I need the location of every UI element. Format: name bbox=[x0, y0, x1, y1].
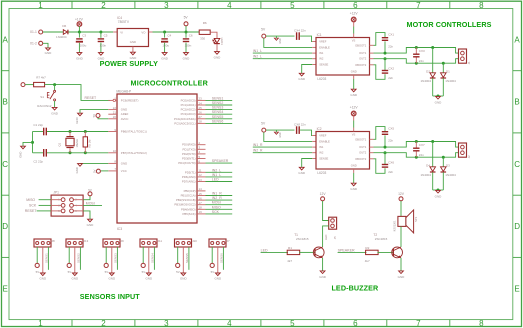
wire S1 to ground bbox=[54, 101, 56, 108]
IC3 pin 18 PB4(MISO) net MISO bbox=[197, 208, 206, 210]
svg-text:IN2: IN2 bbox=[319, 57, 324, 61]
capacitor CX3 22n snubber bbox=[415, 48, 417, 55]
svg-text:SENS5: SENS5 bbox=[185, 253, 189, 263]
svg-text:330: 330 bbox=[200, 36, 205, 40]
svg-text:L6203: L6203 bbox=[317, 171, 326, 175]
svg-text:MISO: MISO bbox=[26, 198, 35, 202]
wire diodes to ground IC1 bbox=[433, 95, 444, 97]
svg-text:PB2(SS/OC1B): PB2(SS/OC1B) bbox=[176, 198, 196, 202]
svg-text:SENS2: SENS2 bbox=[77, 253, 81, 263]
capacitor C1 22p bbox=[43, 128, 44, 136]
wire T1 emitter to ground bbox=[322, 258, 324, 271]
svg-text:GND: GND bbox=[76, 57, 84, 61]
svg-text:8: 8 bbox=[479, 1, 484, 10]
svg-text:OBOOT2: OBOOT2 bbox=[355, 157, 367, 161]
wire J9 pin2 to ground bbox=[111, 247, 113, 273]
svg-text:ENABLE: ENABLE bbox=[319, 45, 330, 49]
svg-text:PD5(T1): PD5(T1) bbox=[185, 170, 196, 174]
svg-text:AREF: AREF bbox=[121, 112, 129, 116]
svg-text:1: 1 bbox=[58, 199, 60, 202]
svg-text:GND: GND bbox=[75, 117, 79, 123]
transistor T1 2SC1815 bbox=[313, 247, 324, 258]
svg-text:5: 5 bbox=[290, 319, 295, 328]
svg-text:3: 3 bbox=[58, 204, 60, 207]
svg-text:IC3: IC3 bbox=[117, 227, 122, 231]
svg-text:PC5(ADC5/SCL): PC5(ADC5/SCL) bbox=[174, 121, 195, 125]
svg-text:SPEAKER: SPEAKER bbox=[338, 248, 355, 252]
wire crystal row XTAL2 bbox=[47, 152, 108, 154]
IC3 pin 2 PD0(RXD) bbox=[197, 144, 206, 146]
wire GND pin 22 bbox=[80, 110, 108, 114]
svg-text:X1-2: X1-2 bbox=[30, 42, 37, 46]
IC3 pin 28 PC5(ADC5/SCL) net SENS6 bbox=[197, 122, 206, 124]
svg-text:22n: 22n bbox=[388, 138, 393, 142]
svg-text:5V: 5V bbox=[176, 270, 180, 274]
svg-text:12: 12 bbox=[199, 173, 203, 177]
diode D1 1N4004 bbox=[442, 63, 444, 73]
svg-text:SCK: SCK bbox=[29, 204, 37, 208]
svg-text:SENS5: SENS5 bbox=[212, 115, 224, 119]
svg-text:PD0(RXD): PD0(RXD) bbox=[182, 143, 195, 147]
svg-text:4: 4 bbox=[227, 1, 232, 10]
svg-text:22: 22 bbox=[113, 106, 117, 110]
wire VCC pin 7 to 5V bbox=[101, 170, 109, 172]
svg-text:4: 4 bbox=[75, 204, 77, 207]
ground below C6 bbox=[184, 53, 189, 56]
speaker SP1 KSS1201 bbox=[398, 216, 406, 226]
svg-text:22n: 22n bbox=[388, 76, 393, 80]
wire SENSE to ground bbox=[312, 158, 316, 160]
node junction at switch S1 bbox=[53, 83, 56, 86]
wire crystal left vertical bbox=[32, 132, 34, 153]
resistor R6 330 bbox=[199, 30, 210, 34]
wire 12V to LED connector bbox=[323, 201, 329, 221]
svg-text:2: 2 bbox=[101, 319, 106, 328]
svg-text:22n: 22n bbox=[419, 59, 424, 63]
node +12V rail junction at C3 bbox=[78, 31, 81, 34]
svg-text:5V: 5V bbox=[211, 270, 215, 274]
svg-text:J8: J8 bbox=[52, 239, 55, 243]
svg-text:26: 26 bbox=[199, 111, 203, 115]
svg-text:SENS6: SENS6 bbox=[212, 119, 224, 123]
wire +12V to VS IC1 bbox=[353, 22, 355, 27]
svg-text:1: 1 bbox=[38, 1, 43, 10]
svg-text:5: 5 bbox=[290, 1, 295, 10]
capacitor CX6 22n bootstrap bbox=[384, 151, 387, 154]
node rail junction at C6 bbox=[185, 31, 188, 34]
wire +12V to VS IC2 bbox=[353, 116, 355, 121]
svg-text:E: E bbox=[3, 284, 8, 293]
svg-text:GND: GND bbox=[435, 100, 443, 104]
svg-text:S1: S1 bbox=[40, 95, 44, 99]
svg-text:J2: J2 bbox=[467, 155, 471, 158]
svg-text:B: B bbox=[3, 98, 8, 107]
svg-text:12V: 12V bbox=[320, 192, 327, 196]
svg-text:J13: J13 bbox=[84, 239, 89, 243]
svg-text:PC2(ADC2): PC2(ADC2) bbox=[181, 108, 196, 112]
svg-text:GND: GND bbox=[39, 277, 47, 281]
wire to crystal ground bbox=[31, 141, 34, 144]
svg-text:R2: R2 bbox=[365, 246, 369, 250]
wire JP1 pin2 to 5V bbox=[83, 196, 90, 200]
wire X1-2 to ground bbox=[43, 43, 48, 48]
supply 5V at JP1 bbox=[88, 192, 92, 196]
ground below T2 bbox=[399, 271, 404, 274]
svg-text:R6: R6 bbox=[203, 21, 207, 25]
IC4 ground pin wire bbox=[132, 47, 134, 53]
svg-text:MISO: MISO bbox=[212, 205, 221, 209]
capacitor C4 100u bbox=[164, 32, 166, 38]
wire main +12V rail bbox=[69, 31, 114, 33]
svg-text:PB4(MISO): PB4(MISO) bbox=[181, 207, 196, 211]
motor driver IC2 L6203 bbox=[316, 132, 370, 170]
wire J11 pin3 net SENS4 bbox=[153, 247, 155, 270]
svg-text:7: 7 bbox=[416, 1, 421, 10]
svg-text:PC6(/RESET): PC6(/RESET) bbox=[121, 98, 139, 102]
svg-text:RACON12: RACON12 bbox=[37, 104, 52, 108]
ground below diodes IC1 bbox=[436, 96, 441, 99]
svg-text:IN2_L: IN2_L bbox=[253, 55, 262, 59]
wire 12V to speaker bbox=[400, 201, 402, 216]
wire MOSI from JP1 bbox=[83, 204, 102, 206]
svg-text:100n: 100n bbox=[100, 44, 107, 48]
svg-text:13: 13 bbox=[199, 178, 203, 182]
svg-text:8: 8 bbox=[479, 319, 484, 328]
svg-text:LED1: LED1 bbox=[220, 38, 224, 46]
crystal Q1 16MHz bbox=[69, 130, 72, 133]
svg-text:PD2(INT0): PD2(INT0) bbox=[182, 152, 196, 156]
svg-text:MOSI: MOSI bbox=[212, 201, 221, 205]
capacitor C6 100n bbox=[185, 32, 187, 38]
svg-text:VREF: VREF bbox=[319, 134, 327, 138]
IC3 pin 3 PD1(TXD) bbox=[197, 148, 206, 150]
frame row ticks right bbox=[513, 70, 522, 72]
svg-text:SP1: SP1 bbox=[414, 216, 418, 222]
frame column ticks top bbox=[71, 1, 73, 8]
svg-text:11: 11 bbox=[199, 169, 202, 173]
svg-text:GND: GND bbox=[298, 77, 306, 81]
svg-text:X1-1: X1-1 bbox=[30, 30, 37, 34]
svg-text:CX6: CX6 bbox=[388, 160, 394, 164]
svg-text:GND: GND bbox=[214, 277, 222, 281]
svg-text:SENSE: SENSE bbox=[319, 157, 328, 161]
wire J7 pin2 to ground bbox=[217, 247, 219, 273]
svg-text:PC3(ADC3): PC3(ADC3) bbox=[181, 112, 196, 116]
wire R1 to T1 base bbox=[299, 251, 315, 253]
resistor R1 4k7 bbox=[287, 250, 300, 254]
node rail junction at C5 bbox=[99, 31, 102, 34]
wire CX4 to VREF bbox=[300, 36, 312, 41]
svg-text:GND: GND bbox=[145, 277, 153, 281]
svg-text:7: 7 bbox=[416, 319, 421, 328]
svg-text:5V: 5V bbox=[105, 270, 109, 274]
svg-text:GND: GND bbox=[398, 275, 406, 279]
svg-text:VCC: VCC bbox=[121, 169, 127, 173]
wire OUT2 rail IC2 bbox=[370, 152, 374, 154]
svg-text:POWER SUPPLY: POWER SUPPLY bbox=[100, 59, 159, 68]
wire J8 pin1 to 5V pad bbox=[36, 247, 38, 263]
svg-text:GND: GND bbox=[161, 57, 169, 61]
capacitor CX2 22n bootstrap bbox=[384, 57, 387, 60]
svg-text:GND: GND bbox=[108, 277, 116, 281]
svg-text:6: 6 bbox=[353, 319, 358, 328]
svg-text:GND: GND bbox=[18, 152, 22, 158]
svg-text:21: 21 bbox=[113, 111, 117, 115]
svg-text:6: 6 bbox=[75, 210, 77, 213]
voltage regulator IC4 7805TV bbox=[117, 29, 148, 47]
wire J7 pin3 net SENS6 bbox=[222, 247, 224, 270]
svg-text:GND: GND bbox=[51, 111, 59, 115]
svg-text:RESET: RESET bbox=[25, 209, 38, 213]
ground at pin 8 bbox=[78, 164, 83, 167]
ground left of crystal bbox=[21, 146, 26, 149]
ground below C3 bbox=[77, 53, 82, 56]
frame row ticks left bbox=[2, 70, 10, 72]
svg-text:D: D bbox=[2, 222, 8, 231]
wire MISO to JP1 bbox=[39, 199, 52, 201]
svg-text:GND: GND bbox=[351, 164, 357, 168]
svg-text:PB5(SCK): PB5(SCK) bbox=[182, 212, 195, 216]
svg-text:C: C bbox=[514, 160, 520, 169]
wire ENABLE from 5V bbox=[264, 38, 312, 47]
svg-text:GND: GND bbox=[350, 93, 358, 97]
svg-text:PC4(ADC4/SDA): PC4(ADC4/SDA) bbox=[174, 117, 196, 121]
wire J13 pin2 to ground bbox=[74, 247, 76, 273]
svg-text:+12V: +12V bbox=[350, 11, 359, 15]
wire 5V to CX8 bbox=[266, 129, 295, 131]
svg-text:PB7(XTAL2/TOSC2): PB7(XTAL2/TOSC2) bbox=[121, 151, 147, 155]
wire AVCC to 5V bbox=[98, 118, 108, 119]
wire R2 to T2 base bbox=[377, 251, 393, 253]
wire OUT1 rail IC1 bbox=[370, 52, 374, 54]
svg-text:5V: 5V bbox=[261, 121, 266, 125]
svg-text:J11: J11 bbox=[158, 239, 163, 243]
connector J10 sensor 5 bbox=[175, 239, 192, 247]
svg-text:OUT1: OUT1 bbox=[359, 51, 367, 55]
svg-text:28: 28 bbox=[199, 120, 203, 124]
IC3 pin 23 PC0(ADC0) net SENS1 bbox=[197, 99, 206, 101]
svg-text:2SC1815: 2SC1815 bbox=[375, 237, 388, 241]
svg-text:B: B bbox=[514, 98, 519, 107]
svg-text:5V: 5V bbox=[36, 270, 40, 274]
svg-text:LED: LED bbox=[261, 248, 268, 252]
svg-text:4k7: 4k7 bbox=[365, 259, 370, 263]
svg-text:16: 16 bbox=[199, 196, 203, 200]
capacitor C2 22p bbox=[43, 149, 44, 157]
svg-text:J9: J9 bbox=[121, 239, 124, 243]
frame column ticks bottom bbox=[71, 320, 73, 327]
IC3 pin 27 PC4(ADC4/SDA) net SENS5 bbox=[197, 118, 206, 120]
svg-text:C4: C4 bbox=[167, 34, 171, 38]
svg-text:D3: D3 bbox=[446, 164, 450, 168]
wire CX8 to VREF bbox=[300, 130, 312, 135]
svg-text:Q1: Q1 bbox=[57, 142, 61, 146]
IC3 pin 19 PB5(SCK) net SCK bbox=[197, 213, 206, 215]
svg-text:SENS1: SENS1 bbox=[212, 96, 224, 100]
svg-text:1N4004: 1N4004 bbox=[445, 173, 456, 177]
svg-text:14: 14 bbox=[199, 187, 203, 191]
svg-text:CX1: CX1 bbox=[388, 32, 394, 36]
svg-text:VS: VS bbox=[352, 39, 356, 43]
svg-text:IN2_R: IN2_R bbox=[212, 196, 222, 200]
capacitor C5 100n bbox=[100, 32, 102, 38]
svg-text:CX7: CX7 bbox=[419, 143, 425, 147]
wire ENABLE from 5V bbox=[264, 132, 312, 141]
wire SENSE to ground bbox=[312, 64, 316, 66]
svg-text:PD4(XCK/T0): PD4(XCK/T0) bbox=[178, 161, 195, 165]
IC3 pin 14 PB0(ICP) bbox=[197, 190, 206, 192]
svg-text:1: 1 bbox=[38, 319, 43, 328]
IC3 pin 11 PD5(T1) net IN2_L bbox=[197, 171, 206, 173]
wire R6 to LED1 bbox=[210, 32, 217, 38]
op-amp IC3 MEGA8-P body bbox=[117, 94, 197, 223]
motor driver IC1 L6203 bbox=[316, 38, 370, 76]
ground mini near CX4 bbox=[274, 38, 278, 40]
svg-text:22n: 22n bbox=[419, 153, 424, 157]
wire J8 pin2 to ground bbox=[42, 247, 44, 273]
svg-text:4: 4 bbox=[227, 319, 232, 328]
IC3 pin 1 inversion circle bbox=[113, 99, 115, 101]
connector JP1 ISP header bbox=[51, 195, 83, 216]
svg-text:SENS3: SENS3 bbox=[114, 253, 118, 263]
wire RESET to JP1 bbox=[37, 210, 52, 212]
svg-text:7805TV: 7805TV bbox=[118, 20, 130, 24]
node rail junction at C4 bbox=[163, 31, 166, 34]
svg-text:5V: 5V bbox=[68, 270, 72, 274]
svg-text:LED-BUZZER: LED-BUZZER bbox=[331, 283, 379, 292]
svg-text:25: 25 bbox=[199, 106, 203, 110]
svg-text:MEGA8-P: MEGA8-P bbox=[116, 89, 132, 93]
svg-text:SENS6: SENS6 bbox=[220, 253, 224, 263]
svg-text:20: 20 bbox=[113, 115, 117, 119]
svg-text:IN1_R: IN1_R bbox=[253, 143, 263, 147]
wire speaker to T2 collector bbox=[400, 226, 402, 247]
svg-text:VREF: VREF bbox=[319, 40, 327, 44]
svg-text:12V: 12V bbox=[398, 192, 405, 196]
svg-text:GND: GND bbox=[121, 108, 127, 112]
svg-text:CX2: CX2 bbox=[388, 66, 394, 70]
svg-text:PB6(XTAL1/TOSC1): PB6(XTAL1/TOSC1) bbox=[121, 130, 147, 134]
ground below IC4 bbox=[131, 52, 136, 55]
svg-text:PD1(TXD): PD1(TXD) bbox=[182, 147, 195, 151]
svg-text:IN2: IN2 bbox=[319, 151, 324, 155]
svg-text:MOTOR CONTROLLERS: MOTOR CONTROLLERS bbox=[406, 20, 491, 29]
connector J7 sensor 6 bbox=[209, 239, 226, 247]
svg-text:PD3(INT1): PD3(INT1) bbox=[182, 157, 196, 161]
svg-text:OBOOT1: OBOOT1 bbox=[355, 43, 367, 47]
svg-text:17: 17 bbox=[199, 201, 203, 205]
svg-text:SENSE: SENSE bbox=[319, 63, 328, 67]
diode D6 1N4004 bbox=[63, 30, 67, 35]
wire 5V output rail bbox=[149, 31, 153, 33]
svg-text:2: 2 bbox=[101, 1, 106, 10]
svg-text:LED: LED bbox=[212, 178, 219, 182]
svg-text:SPEAKER: SPEAKER bbox=[212, 159, 229, 163]
diode D3 1N4004 bbox=[442, 157, 444, 167]
capacitor CX5 22n bootstrap bbox=[370, 138, 374, 140]
transistor T2 2SC1815 bbox=[392, 247, 403, 258]
svg-text:IN2_R: IN2_R bbox=[253, 149, 263, 153]
wire IC2 GND pin to ground bbox=[353, 169, 355, 173]
svg-text:+12V: +12V bbox=[350, 105, 359, 109]
connector J1 motor output bbox=[459, 49, 467, 63]
IC3 pin 6 PD4(XCK/T0) net SPEAKER bbox=[197, 162, 206, 164]
svg-text:C5: C5 bbox=[104, 34, 108, 38]
connector J8 sensor 1 bbox=[34, 239, 51, 247]
svg-text:RESET: RESET bbox=[85, 96, 98, 100]
svg-text:JP1: JP1 bbox=[53, 191, 59, 195]
wire OUT2 rail IC1 bbox=[370, 58, 374, 60]
wire SCK to JP1 bbox=[39, 204, 52, 206]
svg-text:MICROCONTROLLER: MICROCONTROLLER bbox=[130, 78, 208, 87]
wire X1-1 to D6 bbox=[43, 31, 63, 33]
svg-text:J10: J10 bbox=[192, 239, 197, 243]
capacitor CX8 22n bbox=[296, 126, 297, 134]
IC3 pin 15 PB1(OC1A) net IN1_R bbox=[197, 195, 206, 197]
svg-text:IN1_R: IN1_R bbox=[212, 192, 222, 196]
svg-text:5V: 5V bbox=[184, 16, 189, 20]
svg-text:MOSI: MOSI bbox=[86, 202, 95, 206]
svg-text:+12V: +12V bbox=[75, 18, 84, 22]
svg-text:R1: R1 bbox=[288, 246, 292, 250]
wire J7 pin1 to 5V pad bbox=[211, 247, 213, 263]
svg-text:22n: 22n bbox=[388, 170, 393, 174]
svg-text:18: 18 bbox=[199, 206, 203, 210]
svg-text:GND: GND bbox=[130, 40, 136, 44]
svg-text:IN1_L: IN1_L bbox=[212, 173, 221, 177]
svg-text:10: 10 bbox=[113, 149, 117, 153]
ground below LED1 bbox=[215, 52, 220, 55]
supply 5V at AVCC bbox=[96, 114, 100, 118]
svg-text:C3: C3 bbox=[82, 34, 86, 38]
svg-text:GND: GND bbox=[350, 187, 358, 191]
wire GND pin 8 bbox=[80, 162, 108, 164]
svg-text:D1: D1 bbox=[446, 70, 450, 74]
wire 5V to CX4 bbox=[266, 35, 295, 37]
wire crystal row XTAL1 bbox=[47, 131, 108, 133]
svg-text:GND: GND bbox=[130, 56, 138, 60]
svg-text:GND: GND bbox=[183, 57, 191, 61]
svg-text:D2: D2 bbox=[426, 70, 430, 74]
svg-text:PB3(MOSI/OC2): PB3(MOSI/OC2) bbox=[174, 203, 195, 207]
svg-text:OBOOT1: OBOOT1 bbox=[355, 137, 367, 141]
svg-text:C6: C6 bbox=[189, 34, 193, 38]
ground below C4 bbox=[162, 53, 167, 56]
ground below X1-2 bbox=[46, 48, 51, 51]
svg-text:OBOOT2: OBOOT2 bbox=[355, 63, 367, 67]
svg-text:GND: GND bbox=[280, 38, 282, 43]
svg-text:E: E bbox=[514, 284, 519, 293]
svg-text:L6203: L6203 bbox=[317, 77, 326, 81]
ground below JP1 bbox=[88, 219, 93, 222]
svg-text:C: C bbox=[2, 160, 8, 169]
connector J13 sensor 2 bbox=[66, 239, 83, 247]
svg-text:GND: GND bbox=[298, 171, 306, 175]
svg-text:D6: D6 bbox=[62, 24, 66, 28]
svg-text:C2 22p: C2 22p bbox=[33, 160, 43, 164]
svg-text:VS: VS bbox=[352, 133, 356, 137]
svg-text:5: 5 bbox=[58, 210, 60, 213]
wire J10 pin2 to ground bbox=[182, 247, 184, 273]
svg-text:2SC1815: 2SC1815 bbox=[296, 237, 309, 241]
svg-text:4k7: 4k7 bbox=[287, 259, 292, 263]
IC3 pin 17 PB3(MOSI/OC2) net MOSI bbox=[197, 204, 206, 206]
capacitor CX7 22n snubber bbox=[415, 142, 417, 149]
capacitor CX4 22n bbox=[296, 32, 297, 40]
svg-text:KSS1201: KSS1201 bbox=[393, 220, 397, 232]
resistor R7 4k7 reset pullup bbox=[25, 84, 33, 86]
ground below diodes IC2 bbox=[436, 190, 441, 193]
